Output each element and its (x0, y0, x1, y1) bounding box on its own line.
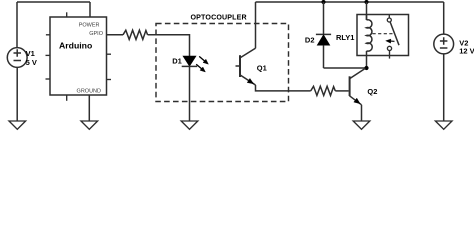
voltage source V2 (434, 34, 454, 54)
wire V2 bottom lead (443, 54, 445, 121)
wire V1 bottom lead (16, 67, 18, 121)
resistor R2 (311, 86, 336, 95)
wire D1 cathode down (189, 66, 191, 121)
resistor R1 (123, 30, 148, 39)
node junction (364, 66, 368, 70)
diode D2 (316, 0, 331, 68)
wire Q1 emitter down and right (256, 85, 311, 91)
svg-text:RLY1: RLY1 (336, 33, 354, 42)
pin stub top unconnected (66, 12, 68, 17)
transistor Q2 (350, 68, 366, 104)
ground under D1 (181, 121, 198, 129)
wire D2 bottom to junction (324, 67, 367, 69)
LED D1 (182, 56, 198, 66)
svg-text:Q2: Q2 (367, 87, 377, 96)
ground under Q2 (353, 121, 370, 129)
IC U1 Arduino (50, 17, 107, 95)
svg-text:GROUND: GROUND (77, 89, 101, 95)
wire POWER drop (89, 2, 91, 17)
pin stub right lower unconnected (107, 79, 112, 81)
actuator dashes (373, 33, 394, 35)
wire top-left rail V1 to POWER (17, 1, 90, 3)
svg-text:Arduino: Arduino (59, 40, 92, 50)
svg-text:GPIO: GPIO (89, 31, 103, 37)
wire top rail to V2 (256, 1, 444, 3)
coil (367, 20, 373, 51)
wire Q1 collector up (255, 2, 257, 48)
wire R2 to Q2 base (335, 90, 348, 92)
svg-text:POWER: POWER (79, 23, 100, 29)
switch (388, 15, 390, 19)
wire V2 top lead (443, 2, 445, 34)
svg-text:Q1: Q1 (257, 63, 267, 72)
svg-text:12 V: 12 V (459, 47, 474, 56)
ground under Arduino (81, 121, 98, 129)
wire GROUND drop (88, 95, 90, 121)
ground under V1 (9, 121, 26, 129)
pin stub left middle unconnected (46, 54, 51, 56)
voltage source V1 (7, 48, 27, 68)
pin stub left lower unconnected (46, 78, 51, 80)
pin stub right middle unconnected (107, 53, 112, 55)
pin stub bottom unconnected (66, 95, 68, 101)
relay RLY1 (357, 0, 409, 68)
svg-text:5 V: 5 V (26, 58, 37, 67)
svg-text:OPTOCOUPLER: OPTOCOUPLER (191, 13, 247, 21)
svg-text:D1: D1 (172, 57, 182, 66)
ground under V2 (435, 121, 452, 129)
wire V1 top lead (16, 2, 18, 48)
wire resistor to corner (148, 35, 190, 56)
svg-text:V1: V1 (26, 49, 35, 58)
wire Q2 emitter down (361, 105, 363, 121)
wire GPIO to resistor (107, 34, 124, 36)
LED arrows (196, 56, 208, 72)
dashed box optocoupler (156, 24, 289, 102)
transistor Q1 (236, 48, 256, 85)
pin stub left unconnected (46, 34, 50, 36)
svg-text:D2: D2 (305, 36, 315, 45)
